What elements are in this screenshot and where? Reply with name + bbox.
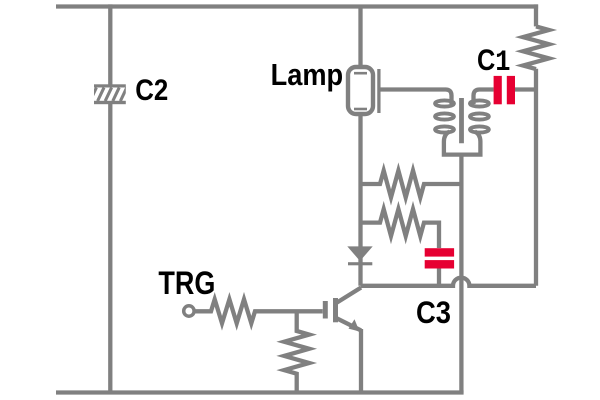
transformer bottom pedestal bbox=[444, 132, 481, 155]
capacitor C1 right plate bbox=[507, 76, 515, 104]
capacitor C2 top plate bbox=[94, 84, 126, 87]
svg-text:C3: C3 bbox=[416, 294, 451, 330]
wire transformer tap down to bottom rail bbox=[459, 155, 463, 393]
svg-text:C2: C2 bbox=[135, 74, 168, 107]
wire right rail lower segment bbox=[534, 69, 538, 286]
transformer left winding loop 3 bbox=[435, 126, 454, 132]
transistor body bar bbox=[333, 298, 338, 322]
wire top rail bbox=[56, 4, 538, 8]
transformer right winding loop 2 bbox=[470, 113, 489, 119]
lamp (flash tube) outline bbox=[348, 67, 373, 114]
wire right rail upper segment bbox=[534, 4, 538, 26]
wire trigger electrode to transformer left winding bbox=[380, 90, 452, 105]
wire transformer right winding to C1 left plate bbox=[474, 90, 494, 105]
wire emitter down to bottom rail bbox=[359, 329, 363, 393]
wire left rail upper segment bbox=[108, 4, 112, 86]
wire lamp top lead bbox=[358, 7, 362, 66]
transformer right winding loop 3 bbox=[470, 126, 489, 132]
svg-text:TRG: TRG bbox=[158, 265, 215, 301]
transistor collector diagonal bbox=[337, 288, 362, 303]
wire C3 bottom lead bbox=[437, 269, 441, 286]
transformer core bbox=[459, 98, 464, 143]
wire left rail lower segment bbox=[108, 102, 112, 393]
wire collector node to right rail with hop over tap wire bbox=[361, 278, 537, 286]
transistor emitter arrowhead bbox=[349, 319, 360, 331]
capacitor C1 left plate bbox=[494, 76, 502, 104]
resistor R-upper (horizontal) with leads bbox=[361, 171, 462, 198]
TRG input terminal circle bbox=[184, 306, 194, 316]
lamp bottom electrode bbox=[354, 108, 367, 111]
lamp trigger electrode bar bbox=[377, 69, 380, 113]
wire C1 right plate to right rail bbox=[515, 87, 536, 91]
svg-text:C1: C1 bbox=[477, 44, 511, 80]
svg-text:Lamp: Lamp bbox=[271, 57, 344, 92]
wire lamp bottom / main vertical to collector node bbox=[358, 116, 362, 286]
capacitor C3 bottom plate bbox=[425, 260, 454, 268]
capacitor C2 hatching bbox=[90, 88, 134, 101]
resistor R-lower (horizontal) with leads to C3 bbox=[361, 209, 440, 248]
wire bottom rail bbox=[56, 390, 464, 394]
diode (on main vertical line) bbox=[347, 246, 372, 261]
transformer left winding loop 1 bbox=[435, 100, 454, 106]
lamp top electrode bbox=[354, 72, 367, 75]
capacitor C3 top plate bbox=[425, 248, 454, 256]
transistor emitter diagonal bbox=[337, 318, 362, 330]
wire TRG input to gate bbox=[195, 299, 322, 323]
capacitor C2 bottom plate bbox=[94, 101, 126, 104]
resistor top-right (vertical zigzag on right rail) bbox=[523, 26, 549, 69]
transformer right winding loop 1 bbox=[470, 100, 489, 106]
transistor gate bar bbox=[323, 301, 328, 319]
transformer left winding loop 2 bbox=[435, 113, 454, 119]
resistor gate pulldown (vertical) with leads bbox=[284, 311, 309, 392]
diode cathode bar bbox=[348, 262, 372, 265]
